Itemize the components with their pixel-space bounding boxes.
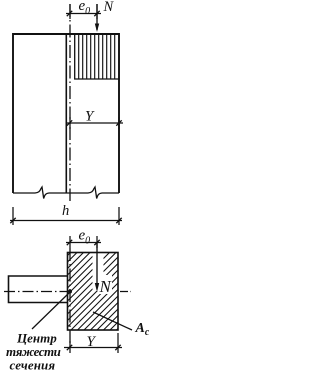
Y dimension (bottom) — [64, 333, 122, 353]
h dimension line — [10, 203, 122, 223]
force N arrow (top) — [95, 0, 115, 32]
e0 dimension (bottom) — [66, 228, 101, 249]
svg-text:N: N — [99, 277, 113, 296]
svg-text:N: N — [103, 0, 115, 15]
section outline: wall arm — [9, 276, 68, 303]
white halo for N line and label — [93, 253, 104, 291]
hatched zone border — [75, 34, 119, 79]
wall junction edge (elevation) — [65, 34, 67, 193]
centroid dot — [68, 290, 72, 294]
vertical centroid axis (dash-dot) — [69, 248, 71, 348]
e0 dimension (top) — [66, 0, 101, 19]
horizontal centroid axis (dash-dot), left segment — [4, 291, 67, 293]
column outline (left, top, right edges) — [13, 34, 119, 193]
leader line to centroid — [32, 292, 70, 329]
svg-text:сечения: сечения — [10, 358, 56, 373]
bottom break line with two zigzags — [13, 187, 119, 199]
leader line to Ac — [93, 312, 132, 330]
centroid axis (vertical dash-dot) — [69, 4, 71, 201]
section outline: bearing rectangle — [68, 253, 119, 331]
diagonal hatch of bearing area Ac — [58, 176, 134, 376]
h dimension extension lines — [12, 207, 14, 225]
svg-text:h: h — [62, 203, 69, 219]
hatched compression zone — [79, 34, 115, 79]
label: Центр тяжести сечения — [6, 331, 61, 373]
horizontal centroid axis (dash-dot), right segment — [120, 291, 131, 293]
force N line with arrowhead (bottom) — [96, 242, 98, 284]
Y dimension (top) — [66, 109, 123, 130]
